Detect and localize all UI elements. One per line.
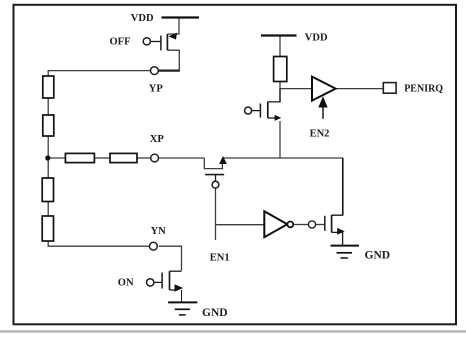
svg-text:YP: YP: [149, 83, 164, 94]
svg-text:VDD: VDD: [305, 33, 328, 44]
svg-text:EN1: EN1: [210, 252, 230, 263]
svg-text:VDD: VDD: [131, 13, 154, 24]
svg-text:XP: XP: [150, 134, 165, 145]
svg-text:GND: GND: [365, 249, 391, 261]
svg-text:EN2: EN2: [310, 128, 330, 139]
svg-text:ON: ON: [118, 277, 134, 288]
svg-text:OFF: OFF: [110, 37, 131, 48]
svg-text:PENIRQ: PENIRQ: [404, 84, 443, 95]
svg-text:YN: YN: [151, 226, 167, 237]
svg-text:GND: GND: [202, 307, 228, 319]
